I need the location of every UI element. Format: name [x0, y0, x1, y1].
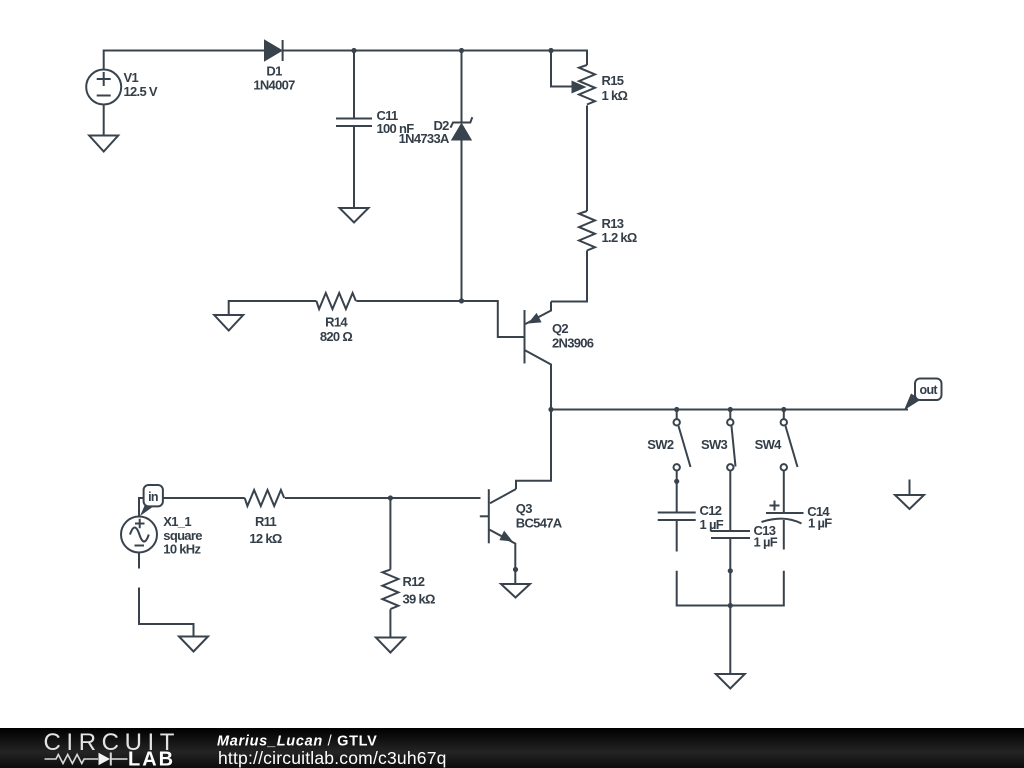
resistor R14 — [316, 293, 356, 309]
ground left of R14 — [214, 315, 243, 331]
diode D1 — [265, 40, 283, 61]
svg-text:R12: R12 — [403, 574, 425, 589]
ground below caps — [716, 674, 745, 689]
wire C12 to bus — [677, 571, 731, 606]
svg-text:V1: V1 — [124, 70, 139, 85]
svg-text:X1_1: X1_1 — [163, 514, 191, 529]
svg-text:LAB: LAB — [128, 749, 175, 768]
wire in flag to R11 — [139, 498, 245, 517]
wire SW3 to C13 — [729, 471, 731, 532]
svg-text:in: in — [148, 490, 158, 504]
svg-text:39 kΩ: 39 kΩ — [403, 592, 436, 607]
svg-text:1N4733A: 1N4733A — [399, 131, 450, 146]
svg-text:D1: D1 — [266, 64, 282, 79]
ground below R12 — [376, 638, 405, 653]
svg-text:SW2: SW2 — [647, 437, 674, 452]
in flag — [140, 485, 163, 516]
svg-text:1.2 kΩ: 1.2 kΩ — [602, 230, 637, 245]
svg-text:C12: C12 — [700, 503, 722, 518]
wire X1 bottom stub — [138, 553, 140, 569]
wire SW4 to C14 — [783, 471, 785, 514]
capacitor C12 — [658, 513, 696, 552]
capacitor C11 — [336, 51, 372, 208]
svg-text:R11: R11 — [255, 514, 277, 529]
svg-text:R13: R13 — [602, 216, 624, 231]
switch SW2 — [674, 410, 691, 471]
wire out net horizontal — [551, 365, 908, 410]
svg-text:Q3: Q3 — [516, 501, 532, 516]
svg-text:1 µF: 1 µF — [700, 517, 724, 532]
wire R13 to Q2 emitter — [551, 251, 587, 302]
wire out net down to Q3 collector — [516, 410, 551, 490]
svg-text:2N3906: 2N3906 — [552, 336, 594, 351]
svg-text:http://circuitlab.com/c3uh67q: http://circuitlab.com/c3uh67q — [218, 748, 447, 768]
wire R11 to Q3 base — [285, 497, 481, 499]
capacitor C14 polarized — [762, 501, 804, 550]
svg-text:R15: R15 — [602, 73, 624, 88]
switch SW3 — [727, 410, 735, 471]
svg-text:12.5 V: 12.5 V — [124, 84, 158, 99]
ground below X1 — [179, 637, 208, 652]
resistor R13 — [579, 211, 595, 250]
svg-text:Q2: Q2 — [552, 321, 568, 336]
wire SW2 to C12 — [676, 471, 678, 513]
ground below V1 — [89, 136, 118, 152]
resistor R12 — [382, 498, 398, 638]
out flag — [904, 379, 942, 411]
svg-text:SW4: SW4 — [755, 437, 783, 452]
logo glyph resistor+diode — [45, 753, 128, 766]
floating ground right — [895, 480, 924, 510]
wire V1 bottom to ground — [103, 105, 105, 136]
zener diode D2 — [451, 51, 473, 301]
svg-text:1 kΩ: 1 kΩ — [602, 88, 628, 103]
wire R15 to R13 — [586, 106, 588, 212]
svg-text:10 kHz: 10 kHz — [163, 542, 201, 557]
svg-text:820 Ω: 820 Ω — [320, 329, 353, 344]
ground below Q3 — [501, 584, 530, 598]
svg-text:BC547A: BC547A — [516, 516, 563, 531]
node dots — [351, 48, 786, 608]
svg-text:out: out — [920, 383, 939, 397]
svg-text:1N4007: 1N4007 — [253, 78, 295, 93]
svg-text:12 kΩ: 12 kΩ — [249, 531, 282, 546]
svg-text:SW3: SW3 — [701, 437, 728, 452]
capacitor C13 — [711, 531, 750, 606]
wire R14 ground branch — [229, 301, 317, 315]
svg-text:1 µF: 1 µF — [808, 516, 832, 531]
ground below C11 — [340, 208, 369, 223]
wire X1 to ground — [139, 588, 194, 637]
transistor Q3 — [480, 489, 516, 584]
switch SW4 — [781, 410, 798, 471]
voltage source V1 — [86, 70, 121, 105]
wire from D1 cathode to R15 top bend — [283, 51, 587, 66]
transistor Q2 — [525, 302, 552, 410]
svg-text:R14: R14 — [325, 315, 348, 330]
wire bus to ground — [729, 606, 731, 675]
svg-text:1 µF: 1 µF — [754, 535, 778, 550]
wire C14 to bus — [730, 571, 784, 606]
source X1_1 — [121, 517, 157, 553]
wire R14 to Q2 base — [356, 301, 523, 337]
potentiometer R15 — [551, 51, 595, 105]
resistor R11 — [245, 490, 285, 506]
footer bar — [0, 728, 1024, 768]
wire top rail from V1 to D1 anode — [104, 51, 265, 70]
